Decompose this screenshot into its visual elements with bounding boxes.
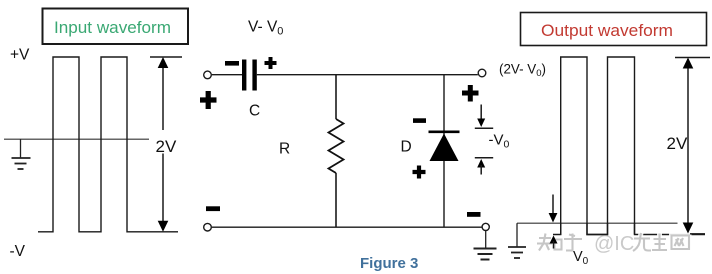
capacitor C	[242, 60, 257, 91]
terminal (top-right)	[478, 69, 486, 77]
wire output wave below-axis redraw	[561, 223, 705, 235]
svg-text:Output waveform: Output waveform	[541, 21, 673, 40]
svg-text:Input waveform: Input waveform	[54, 18, 171, 37]
output zero axis	[517, 222, 678, 224]
dimension V0 (output)	[549, 195, 589, 267]
terminal (top-left)	[204, 71, 212, 79]
watermark glyph 网	[672, 236, 690, 250]
polarity - (bottom right)	[467, 212, 481, 217]
input waveform trace	[38, 57, 178, 232]
output waveform trace	[553, 57, 705, 235]
dimension 2V (input)	[150, 57, 182, 232]
svg-text:D: D	[401, 139, 412, 156]
watermark glyph 生	[652, 234, 667, 251]
label box: Input waveform	[43, 9, 189, 45]
watermark glyph 先	[633, 233, 651, 251]
watermark: Zhihu @IC (hand-drawn gray glyphs, white halo)	[537, 233, 689, 251]
wire bottom	[212, 226, 482, 228]
svg-text:2V: 2V	[156, 137, 177, 156]
resistor R	[329, 119, 344, 173]
polarity + (capacitor right)	[265, 57, 277, 69]
ground (input)	[12, 139, 31, 169]
wire diode branch	[443, 75, 445, 227]
polarity - (diode top)	[413, 118, 426, 123]
polarity + (diode bottom)	[413, 166, 426, 179]
ground (circuit bottom-right)	[474, 231, 497, 260]
polarity + (big, top right)	[462, 85, 479, 102]
polarity - (capacitor left)	[225, 61, 239, 66]
svg-text:-V: -V	[10, 243, 26, 260]
terminal (bottom-left)	[204, 223, 212, 231]
terminal (bottom-right)	[482, 223, 489, 230]
svg-text:Figure 3: Figure 3	[360, 255, 418, 272]
watermark glyph 乎	[564, 234, 582, 252]
polarity + (big, below top-left terminal)	[200, 91, 217, 109]
wire resistor branch	[335, 75, 337, 119]
wire capacitor to top-right terminal	[257, 74, 478, 76]
input zero axis	[4, 138, 149, 140]
svg-text:@IC: @IC	[594, 233, 634, 255]
watermark glyph 知	[537, 234, 552, 251]
polarity - (bottom left)	[206, 206, 220, 211]
dimension 2V (output)	[667, 58, 711, 234]
watermark glyph 知 box	[555, 240, 562, 250]
label box: Output waveform	[521, 13, 707, 46]
svg-text:C: C	[249, 102, 260, 119]
svg-text:R: R	[279, 141, 290, 158]
svg-text:+V: +V	[10, 47, 30, 64]
diode D	[429, 132, 460, 161]
ground (output)	[508, 223, 526, 258]
dimension -V0 (across diode)	[475, 105, 510, 175]
svg-text:2V: 2V	[667, 134, 688, 153]
wire top-left terminal to capacitor	[212, 74, 242, 76]
